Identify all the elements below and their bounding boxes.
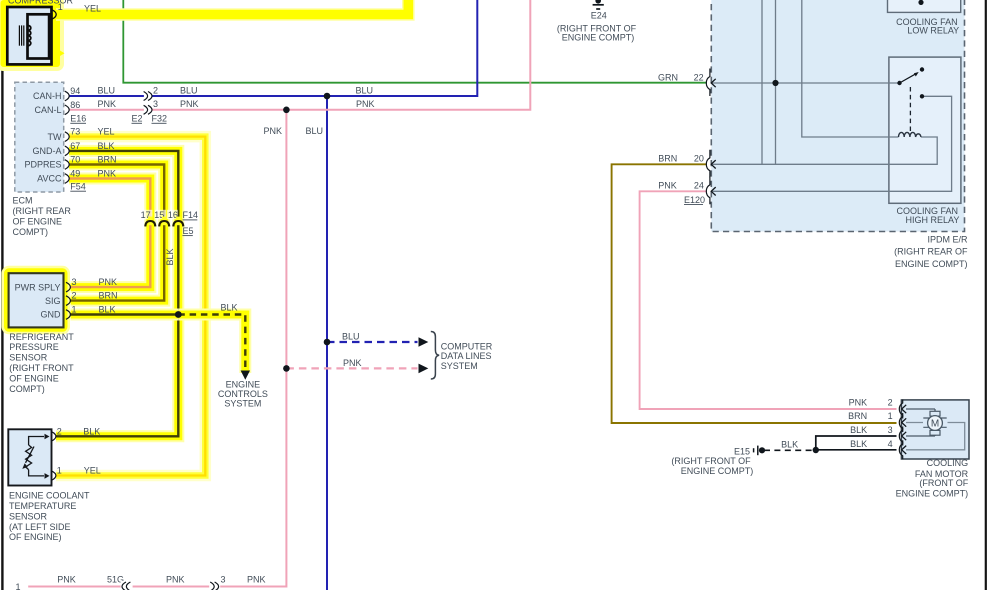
svg-text:2: 2 — [153, 85, 158, 95]
svg-text:BRN: BRN — [98, 154, 117, 164]
inline connector 17 on AVCC wire — [141, 210, 156, 227]
ECM pin CAN-H arc — [65, 91, 69, 101]
IPDM connector pin 22 — [706, 69, 715, 97]
wire BLK motor pin 3 to junction — [816, 436, 897, 450]
svg-text:49: 49 — [70, 169, 80, 179]
ECM box — [15, 82, 64, 192]
svg-text:E15: E15 — [734, 446, 750, 456]
svg-text:BLU: BLU — [180, 85, 198, 95]
refrigerant sensor pin 3 arc — [66, 282, 70, 292]
svg-text:20: 20 — [694, 153, 704, 163]
svg-text:REFRIGERANT: REFRIGERANT — [9, 332, 74, 342]
svg-text:2: 2 — [888, 398, 893, 408]
svg-text:(FRONT OF: (FRONT OF — [919, 478, 968, 488]
svg-text:86: 86 — [70, 100, 80, 110]
svg-text:BLK: BLK — [98, 141, 115, 151]
curly brace — [431, 332, 439, 380]
svg-text:E16: E16 — [70, 114, 86, 124]
relay switch arm — [897, 67, 924, 98]
IPDM internal vertical wire v3 to coil — [802, 0, 899, 137]
svg-text:AVCC: AVCC — [37, 174, 62, 184]
svg-text:(AT LEFT SIDE: (AT LEFT SIDE — [9, 522, 71, 532]
highlighted wire BLK GND-A circuit — [56, 151, 178, 436]
svg-text:PNK: PNK — [166, 574, 185, 584]
inline connector 51G on bottom PNK — [121, 581, 133, 590]
refrigerant sensor GND wire (highlighted BLK) — [71, 309, 179, 321]
bottom PNK wire labels — [16, 574, 266, 590]
svg-text:SYSTEM: SYSTEM — [441, 361, 478, 371]
junction v2 on GRN feed — [772, 80, 778, 86]
ground E24 — [557, 0, 637, 43]
svg-text:3: 3 — [888, 425, 893, 435]
ECM pin PDPRES arc — [65, 160, 69, 170]
svg-text:PWR SPLY: PWR SPLY — [15, 282, 61, 292]
svg-text:BLU: BLU — [305, 126, 323, 136]
svg-text:1: 1 — [888, 411, 893, 421]
engine controls system caption — [218, 379, 268, 408]
svg-text:OF ENGINE: OF ENGINE — [13, 216, 63, 226]
svg-text:SENSOR: SENSOR — [9, 511, 48, 521]
inline connector on PNK — [144, 99, 199, 116]
wire BLK motor pin 4 to junction — [816, 449, 897, 451]
svg-text:BLU: BLU — [342, 332, 360, 342]
label E120 — [684, 195, 705, 205]
svg-text:GND-A: GND-A — [33, 146, 62, 156]
svg-text:PNK: PNK — [98, 99, 117, 109]
svg-text:67: 67 — [70, 141, 80, 151]
svg-text:PNK: PNK — [356, 99, 375, 109]
svg-text:22: 22 — [694, 73, 704, 83]
motor connector pin 2 — [849, 398, 907, 419]
svg-text:BLK: BLK — [83, 426, 100, 436]
svg-text:COMPT): COMPT) — [13, 227, 49, 237]
compressor pin 1 connector — [52, 2, 101, 19]
junction BLK sensor ground — [175, 311, 182, 318]
svg-text:1: 1 — [16, 582, 21, 590]
refrigerant sensor pin 1 arc — [66, 310, 70, 320]
svg-text:HIGH RELAY: HIGH RELAY — [906, 215, 960, 225]
svg-text:BLK: BLK — [850, 439, 867, 449]
svg-text:(RIGHT REAR OF: (RIGHT REAR OF — [894, 247, 968, 257]
cooling fan motor box — [896, 400, 969, 499]
svg-text:1: 1 — [57, 466, 62, 476]
svg-text:PNK: PNK — [263, 126, 282, 136]
svg-text:CAN-L: CAN-L — [34, 105, 61, 115]
motor connector pin 1 — [848, 411, 906, 432]
svg-text:70: 70 — [70, 155, 80, 165]
svg-text:ENGINE COMPT): ENGINE COMPT) — [895, 259, 968, 269]
svg-text:LOW RELAY: LOW RELAY — [907, 26, 959, 36]
svg-text:BRN: BRN — [658, 153, 677, 163]
labels F14 E5 — [183, 210, 199, 236]
svg-text:3: 3 — [221, 574, 226, 584]
page border right — [985, 0, 987, 590]
svg-text:DATA LINES: DATA LINES — [441, 351, 492, 361]
refrigerant sensor caption — [9, 332, 74, 394]
svg-text:BLK: BLK — [850, 425, 867, 435]
svg-text:YEL: YEL — [98, 127, 115, 137]
svg-text:ENGINE: ENGINE — [226, 379, 261, 389]
svg-text:IPDM E/R: IPDM E/R — [927, 234, 968, 244]
ECM caption — [13, 196, 72, 237]
svg-text:2: 2 — [72, 291, 77, 301]
svg-text:BLU: BLU — [98, 85, 116, 95]
svg-text:ENGINE COMPT): ENGINE COMPT) — [896, 489, 969, 499]
svg-text:ECM: ECM — [13, 196, 33, 206]
wire PNK CAN-L — [28, 0, 530, 587]
svg-text:COMPUTER: COMPUTER — [441, 341, 493, 351]
IPDM BRN return wire h20 — [712, 137, 938, 164]
wire GRN from top to IPDM pin 22 — [123, 0, 707, 83]
svg-text:F14: F14 — [183, 210, 199, 220]
refrigerant pressure sensor box — [5, 269, 67, 331]
IPDM internal vertical wire v1 — [761, 0, 763, 164]
page border left — [1, 0, 3, 590]
svg-text:PDPRES: PDPRES — [24, 160, 61, 170]
coolant sensor caption — [9, 491, 90, 543]
svg-text:BRN: BRN — [848, 411, 867, 421]
svg-text:94: 94 — [70, 86, 80, 96]
refrigerant sensor pin 2 arc — [66, 296, 70, 306]
svg-text:TW: TW — [48, 132, 62, 142]
IPDM connector pin 20 — [706, 150, 715, 178]
dashed BLU to computer data lines — [327, 332, 428, 347]
svg-text:24: 24 — [694, 180, 704, 190]
wire BLU CAN-H — [69, 0, 477, 590]
junction BLK ground — [813, 447, 819, 453]
svg-text:PRESSURE: PRESSURE — [9, 342, 59, 352]
IPDM connector pin 24 — [706, 177, 715, 205]
ECM pin CAN-L arc — [65, 105, 69, 115]
relay actuator dashed link — [909, 87, 911, 133]
svg-text:COMPRESSOR: COMPRESSOR — [8, 0, 74, 5]
svg-text:2: 2 — [57, 426, 62, 436]
coolant sensor pin 2 arc — [52, 432, 56, 441]
motor connector pin 4 — [850, 439, 906, 460]
svg-text:E120: E120 — [684, 195, 705, 205]
svg-text:PNK: PNK — [849, 398, 868, 408]
IPDM internal vertical wire v2 — [775, 0, 777, 164]
IPDM internal GRN feed wire to switch — [712, 82, 900, 84]
svg-text:1: 1 — [72, 305, 77, 315]
svg-text:SYSTEM: SYSTEM — [224, 399, 261, 409]
svg-text:OF ENGINE: OF ENGINE — [9, 373, 59, 383]
ECM pin TW arc — [65, 132, 69, 142]
svg-text:GRN: GRN — [658, 73, 678, 83]
svg-text:BRN: BRN — [99, 291, 118, 301]
IPDM E/R box — [711, 0, 964, 232]
svg-text:ENGINE COMPT): ENGINE COMPT) — [681, 466, 754, 476]
cooling fan high relay box — [889, 57, 961, 225]
dashed BLK to ground E15 — [764, 449, 812, 451]
svg-text:COOLING: COOLING — [927, 458, 969, 468]
ground E15 — [671, 446, 765, 477]
svg-text:PNK: PNK — [247, 574, 266, 584]
wire PNK from IPDM pin 24 to motor pin 2 — [640, 191, 897, 409]
IPDM E/R caption — [894, 234, 968, 269]
svg-text:GND: GND — [41, 310, 62, 320]
svg-text:PNK: PNK — [658, 180, 677, 190]
ECM pin GND-A arc — [65, 146, 69, 156]
compressor highlight glow — [0, 0, 408, 69]
highlighted wire YEL TW circuit — [56, 137, 205, 476]
engine coolant temperature sensor box — [8, 429, 51, 485]
svg-text:PNK: PNK — [99, 277, 118, 287]
compressor COMPRESSOR — [7, 0, 73, 64]
svg-text:4: 4 — [888, 439, 893, 449]
svg-text:SENSOR: SENSOR — [9, 353, 48, 363]
inline connector 3 on bottom PNK — [209, 581, 220, 590]
computer data lines caption — [441, 341, 493, 371]
svg-text:3: 3 — [153, 99, 158, 109]
svg-text:M: M — [931, 419, 939, 430]
highlighted dashed BLK to engine controls — [178, 315, 250, 380]
svg-text:F54: F54 — [70, 182, 86, 192]
svg-text:CONTROLS: CONTROLS — [218, 389, 268, 399]
svg-text:YEL: YEL — [84, 466, 101, 476]
svg-text:PNK: PNK — [180, 99, 199, 109]
svg-text:BLK: BLK — [781, 439, 798, 449]
wire BRN from IPDM pin 20 to motor pin 1 — [612, 164, 897, 423]
inline connector E2/F32 on BLU — [144, 85, 198, 102]
svg-text:TEMPERATURE: TEMPERATURE — [9, 501, 76, 511]
svg-text:3: 3 — [72, 277, 77, 287]
junction BLU data line — [324, 339, 331, 346]
svg-text:COMPT): COMPT) — [9, 384, 45, 394]
svg-text:E24: E24 — [591, 11, 607, 21]
motor M1 symbol — [906, 409, 965, 450]
highlighted wire PNK AVCC circuit — [69, 179, 150, 288]
svg-text:BLK: BLK — [165, 248, 175, 265]
inline connector 15 on PDPRES wire — [154, 210, 169, 227]
ECM pin AVCC arc — [65, 174, 69, 184]
cooling fan low relay box — [888, 0, 961, 36]
dashed PNK to computer data lines — [286, 358, 428, 373]
svg-text:OF ENGINE): OF ENGINE) — [9, 532, 62, 542]
svg-text:BLK: BLK — [99, 305, 116, 315]
svg-text:E2: E2 — [132, 114, 143, 124]
svg-text:ENGINE COMPT): ENGINE COMPT) — [562, 33, 635, 43]
svg-text:YEL: YEL — [84, 4, 101, 14]
svg-text:(RIGHT REAR: (RIGHT REAR — [13, 206, 72, 216]
svg-text:1: 1 — [58, 2, 63, 12]
relay coil L1 — [899, 132, 922, 137]
junction PNK data line — [283, 365, 290, 372]
svg-text:ENGINE COOLANT: ENGINE COOLANT — [9, 491, 90, 501]
svg-text:(RIGHT FRONT OF: (RIGHT FRONT OF — [671, 456, 751, 466]
highlighted wire BRN PDPRES circuit — [69, 165, 164, 301]
svg-text:BLU: BLU — [356, 86, 374, 96]
svg-text:PNK: PNK — [343, 358, 362, 368]
svg-text:PNK: PNK — [98, 169, 117, 179]
IPDM PNK output wire h24 — [712, 96, 952, 191]
svg-text:(RIGHT FRONT: (RIGHT FRONT — [9, 363, 74, 373]
svg-text:E5: E5 — [183, 226, 194, 236]
svg-text:F32: F32 — [152, 114, 168, 124]
inline connector 16 on GND-A wire — [167, 210, 184, 227]
motor connector pin 3 — [850, 425, 906, 446]
svg-text:PNK: PNK — [57, 574, 76, 584]
svg-text:BLK: BLK — [221, 303, 238, 313]
svg-text:73: 73 — [70, 127, 80, 137]
svg-text:CAN-H: CAN-H — [33, 91, 62, 101]
coolant sensor pin 1 arc — [52, 471, 56, 480]
svg-text:SIG: SIG — [45, 296, 61, 306]
